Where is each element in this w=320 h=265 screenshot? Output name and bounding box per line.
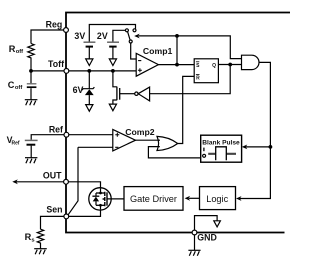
svg-text:R: R — [196, 76, 200, 82]
wire M1 gate to inverter output — [120, 93, 135, 95]
wire feedback to Blank Pulse — [246, 146, 271, 148]
svg-text:s: s — [31, 238, 34, 244]
node Sen — [64, 214, 69, 219]
wire Sen to Q1 source — [66, 209, 100, 216]
svg-text:Toff: Toff — [48, 59, 64, 69]
inverter U2 — [135, 92, 138, 95]
wire GND link to Logic arrow — [195, 216, 218, 231]
svg-text:Q: Q — [212, 63, 216, 69]
svg-text:Reg: Reg — [46, 19, 63, 29]
IC boundary box — [66, 13, 290, 233]
ground under GND pin — [194, 235, 196, 250]
wire AND output feedback — [240, 62, 270, 198]
svg-text:3V: 3V — [74, 31, 85, 41]
svg-text:off: off — [15, 85, 22, 91]
svg-text:Sen: Sen — [46, 204, 62, 214]
wire OUT arrow — [16, 181, 66, 183]
wire Reg to Roff — [31, 30, 66, 44]
wire blank pulse line to OR bottom input — [148, 147, 200, 158]
Gate Driver box — [124, 187, 183, 211]
node Toff — [64, 69, 69, 74]
svg-text:off: off — [16, 49, 23, 55]
node junction Toff/zener — [87, 69, 91, 73]
svg-text:Ref: Ref — [49, 124, 63, 134]
ground under Coff — [25, 100, 38, 106]
wire Comp2 out to OR top input — [136, 139, 161, 141]
wire Comp2 inverting input from Sen — [68, 147, 78, 214]
wire Logic to Gate Driver arrow — [189, 197, 200, 199]
ground under Rs — [34, 249, 47, 255]
wire vertical Comp1 out to control line — [176, 36, 178, 65]
Blank Pulse box — [201, 135, 242, 162]
node junction control/Comp1 output — [175, 34, 179, 38]
node junction feedback/blank pulse — [269, 145, 273, 149]
switch S1 — [128, 32, 131, 40]
svg-text:Gate Driver: Gate Driver — [130, 194, 177, 204]
svg-text:2V: 2V — [97, 31, 108, 41]
OR gate U5 — [157, 136, 178, 150]
svg-text:Ref: Ref — [12, 141, 20, 147]
wire latch Q to AND — [218, 64, 241, 66]
svg-text:Comp1: Comp1 — [143, 46, 173, 56]
svg-text:OUT: OUT — [43, 170, 62, 180]
wire inverter input from Q line — [150, 65, 231, 94]
node Ref — [64, 132, 69, 137]
svg-text:GND: GND — [197, 233, 217, 243]
node Reg — [64, 28, 69, 33]
resistor Roff — [28, 44, 34, 71]
op-amp Comp1 — [136, 53, 158, 76]
node junction Toff/Roff/Coff — [29, 69, 33, 73]
flip-flop U3 (SR latch) — [194, 59, 218, 83]
transistor Q1 (power MOSFET) — [89, 188, 111, 210]
Logic box — [200, 187, 236, 210]
zener diode 6V — [88, 71, 90, 89]
AND gate U4 — [242, 55, 260, 69]
wire Toff rail — [31, 70, 136, 72]
wire Ref to VRef — [31, 135, 66, 140]
wire switch control from AND top-input line — [139, 36, 242, 59]
ground under VRef — [25, 158, 37, 164]
svg-text:C: C — [8, 80, 15, 90]
wire Sen to Rs — [41, 216, 67, 229]
svg-text:Blank Pulse: Blank Pulse — [202, 140, 240, 147]
node OUT — [64, 179, 69, 184]
wire 2V riser to switch left contact — [113, 30, 126, 42]
capacitor Coff — [30, 71, 32, 83]
battery 3V — [84, 41, 96, 43]
node junction Q/inverter — [228, 63, 232, 67]
wire 3V riser to switch right contact — [89, 25, 135, 43]
battery VRef — [25, 139, 38, 141]
resistor Rs — [37, 229, 43, 248]
svg-text:Logic: Logic — [206, 194, 228, 204]
op-amp Comp2 — [67, 134, 113, 136]
node junction Comp1 out — [175, 63, 179, 67]
wire OUT to Q1 drain — [66, 182, 101, 189]
wire Comp1 output to latch S input — [158, 64, 194, 66]
svg-text:6V: 6V — [73, 85, 84, 95]
wire OR output to latch R input — [178, 76, 195, 143]
node junction Toff/M1 drain — [111, 69, 115, 73]
wire switch pole to Comp1 inverting input — [131, 43, 137, 59]
battery 2V — [107, 41, 119, 43]
transistor M1 (small MOSFET) — [113, 71, 117, 87]
svg-text:Comp2: Comp2 — [125, 127, 155, 137]
node GND — [192, 230, 197, 235]
wire Q1 gate to Gate Driver — [107, 198, 124, 200]
